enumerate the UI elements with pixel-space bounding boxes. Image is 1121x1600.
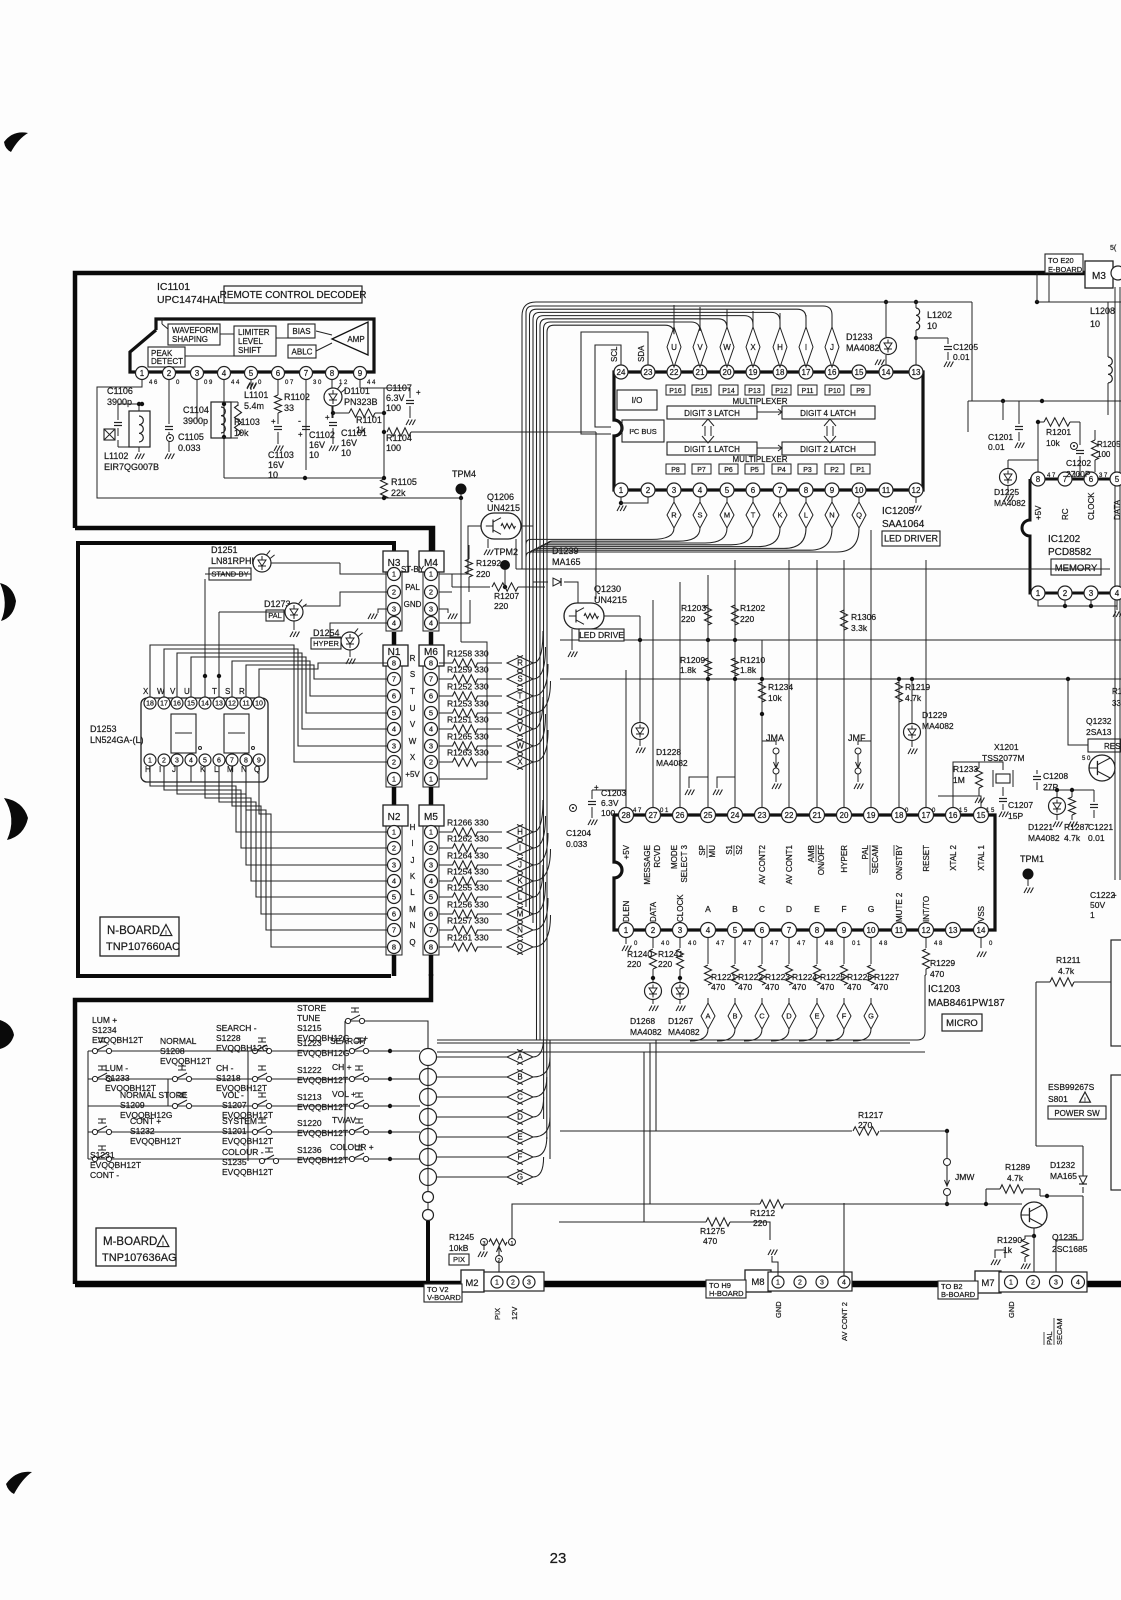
svg-text:R1251 330: R1251 330 (447, 715, 489, 725)
svg-text:+: + (363, 1033, 368, 1043)
svg-text:E: E (814, 1012, 819, 1021)
svg-text:SECAM: SECAM (871, 845, 880, 874)
svg-text:S1223: S1223 (297, 1038, 322, 1048)
svg-text:14: 14 (882, 368, 891, 377)
svg-text:R1209: R1209 (680, 655, 705, 665)
svg-text:3: 3 (429, 605, 433, 614)
svg-text:C1201: C1201 (988, 432, 1013, 442)
svg-text:RC: RC (1061, 508, 1070, 520)
svg-text:R1211: R1211 (1056, 955, 1081, 965)
svg-text:4: 4 (189, 758, 193, 765)
svg-text:4: 4 (392, 877, 396, 886)
svg-text:DETECT: DETECT (151, 357, 183, 366)
svg-text:470: 470 (930, 969, 944, 979)
svg-text:R1233: R1233 (953, 764, 978, 774)
svg-text:6: 6 (751, 486, 756, 495)
svg-text:POWER SW: POWER SW (1054, 1109, 1100, 1118)
svg-text:2: 2 (392, 588, 396, 597)
svg-text:P5: P5 (750, 467, 759, 474)
svg-text:LED DRIVER: LED DRIVER (884, 534, 939, 544)
svg-text:1.8k: 1.8k (740, 665, 757, 675)
svg-text:8: 8 (392, 659, 396, 668)
svg-text:!: ! (162, 1242, 164, 1249)
svg-text:6: 6 (429, 910, 433, 919)
svg-text:4 8: 4 8 (934, 941, 943, 947)
svg-text:6: 6 (760, 926, 765, 935)
svg-text:4 7: 4 7 (633, 808, 642, 814)
svg-text:N: N (410, 921, 416, 930)
svg-text:XTAL 2: XTAL 2 (949, 844, 958, 870)
svg-text:P12: P12 (775, 388, 788, 395)
svg-text:4: 4 (222, 369, 227, 378)
svg-text:A: A (705, 904, 711, 914)
svg-text:25: 25 (704, 811, 713, 820)
svg-text:S1215: S1215 (297, 1023, 322, 1033)
svg-text:17: 17 (160, 701, 168, 708)
svg-text:12: 12 (922, 926, 931, 935)
svg-text:JMW: JMW (955, 1172, 974, 1182)
svg-text:X: X (143, 687, 149, 696)
svg-text:B: B (732, 904, 738, 914)
svg-text:4.7k: 4.7k (905, 693, 922, 703)
svg-text:K: K (777, 511, 782, 520)
svg-text:R1255 330: R1255 330 (447, 883, 489, 893)
svg-text:MA4082: MA4082 (1028, 833, 1060, 843)
svg-text:8: 8 (392, 943, 396, 952)
svg-text:0 1: 0 1 (852, 941, 861, 947)
svg-text:P3: P3 (803, 467, 812, 474)
svg-text:4 6: 4 6 (149, 380, 158, 386)
svg-text:6: 6 (276, 369, 281, 378)
svg-text:R: R (410, 654, 416, 663)
svg-text:S2: S2 (735, 844, 744, 854)
svg-text:R1104: R1104 (386, 433, 412, 443)
svg-text:X: X (410, 753, 416, 762)
svg-text:M7: M7 (981, 1278, 994, 1289)
svg-text:PAL: PAL (861, 844, 870, 859)
svg-text:5: 5 (203, 758, 207, 765)
svg-text:CH +: CH + (332, 1062, 352, 1072)
svg-text:M: M (724, 511, 730, 520)
svg-text:M: M (517, 910, 524, 919)
svg-text:1: 1 (392, 775, 396, 784)
svg-text:L1101: L1101 (244, 390, 268, 400)
svg-text:LIMITER: LIMITER (238, 328, 270, 337)
svg-text:18: 18 (146, 701, 154, 708)
svg-text:R1101: R1101 (356, 415, 382, 425)
svg-text:4: 4 (392, 725, 396, 734)
svg-text:T: T (518, 692, 523, 701)
svg-text:3: 3 (392, 861, 396, 870)
svg-text:33: 33 (1112, 699, 1121, 708)
svg-text:EVQQBH12T: EVQQBH12T (297, 1102, 348, 1112)
svg-text:MU: MU (708, 845, 717, 858)
svg-text:10k: 10k (234, 428, 249, 438)
svg-text:4: 4 (706, 926, 711, 935)
svg-text:4: 4 (842, 1280, 846, 1287)
svg-text:TNP107660AC: TNP107660AC (106, 941, 180, 953)
svg-text:7: 7 (304, 369, 309, 378)
svg-text:R1217: R1217 (858, 1110, 883, 1120)
svg-text:R1263 330: R1263 330 (447, 748, 489, 758)
svg-text:3: 3 (672, 486, 677, 495)
svg-text:3: 3 (1054, 1280, 1058, 1287)
svg-text:L1102: L1102 (104, 451, 128, 461)
svg-text:11: 11 (242, 701, 249, 708)
svg-text:4.7k: 4.7k (1058, 966, 1075, 976)
svg-text:1: 1 (429, 828, 433, 837)
svg-text:100: 100 (386, 443, 401, 453)
svg-text:27: 27 (649, 811, 658, 820)
svg-text:100: 100 (386, 403, 401, 413)
svg-text:S1213: S1213 (297, 1092, 322, 1102)
svg-text:2SC1685: 2SC1685 (1052, 1244, 1088, 1254)
svg-text:C1104: C1104 (183, 405, 209, 415)
svg-text:5(: 5( (1110, 245, 1117, 252)
svg-text:L: L (518, 893, 523, 902)
svg-text:C: C (759, 904, 765, 914)
svg-text:H: H (410, 823, 416, 832)
svg-text:MA4082: MA4082 (656, 758, 688, 768)
svg-text:1: 1 (1090, 910, 1095, 920)
svg-text:1.8k: 1.8k (680, 665, 697, 675)
svg-text:W: W (409, 737, 417, 746)
svg-text:14: 14 (201, 701, 209, 708)
svg-text:D1101: D1101 (344, 386, 370, 396)
svg-text:J: J (411, 856, 415, 865)
svg-text:LUM -: LUM - (105, 1063, 128, 1073)
svg-text:8: 8 (1036, 475, 1041, 484)
svg-text:V: V (170, 687, 176, 696)
svg-text:8: 8 (815, 926, 820, 935)
svg-text:AMP: AMP (347, 335, 364, 344)
svg-text:U: U (671, 343, 677, 352)
svg-text:TV/AV: TV/AV (332, 1115, 356, 1125)
svg-text:S: S (225, 687, 230, 696)
svg-text:4 7: 4 7 (1047, 473, 1056, 479)
svg-text:ABLC: ABLC (292, 347, 313, 356)
svg-text:Q1206: Q1206 (487, 492, 514, 502)
svg-text:Q: Q (409, 938, 415, 947)
svg-text:C1106: C1106 (107, 386, 133, 396)
svg-text:1M: 1M (953, 775, 965, 785)
svg-text:CLOCK: CLOCK (676, 894, 685, 922)
svg-text:5: 5 (725, 486, 730, 495)
svg-text:16V: 16V (341, 438, 357, 448)
svg-text:C1103: C1103 (268, 450, 294, 460)
svg-text:18: 18 (776, 368, 785, 377)
svg-text:TPM1: TPM1 (1020, 854, 1044, 864)
svg-text:I: I (159, 765, 161, 774)
svg-text:D1233: D1233 (846, 332, 873, 342)
svg-text:20: 20 (723, 368, 732, 377)
svg-text:2: 2 (167, 369, 172, 378)
svg-text:2SA13: 2SA13 (1086, 727, 1112, 737)
svg-text:220: 220 (658, 959, 672, 969)
svg-text:P14: P14 (722, 388, 735, 395)
svg-text:M2: M2 (465, 1278, 478, 1289)
svg-text:D1268: D1268 (630, 1016, 655, 1026)
svg-text:I/O: I/O (632, 396, 643, 405)
svg-text:+: + (298, 430, 303, 439)
svg-text:470: 470 (847, 982, 861, 992)
svg-text:S1208: S1208 (160, 1046, 185, 1056)
svg-text:15: 15 (187, 701, 195, 708)
svg-text:3: 3 (678, 926, 683, 935)
svg-text:RESET: RESET (922, 845, 931, 872)
svg-text:12: 12 (912, 486, 921, 495)
svg-text:19: 19 (867, 811, 876, 820)
svg-text:R1234: R1234 (768, 682, 793, 692)
svg-text:0 1: 0 1 (660, 808, 669, 814)
svg-text:L1208: L1208 (1090, 306, 1115, 316)
svg-text:E: E (517, 1133, 522, 1142)
svg-text:5: 5 (392, 893, 396, 902)
svg-text:SEARCH: SEARCH (330, 1036, 365, 1046)
svg-text:!: ! (1084, 1098, 1086, 1105)
svg-text:WAVEFORM: WAVEFORM (172, 326, 219, 335)
svg-text:PIX: PIX (493, 1308, 502, 1320)
svg-text:7: 7 (392, 675, 396, 684)
svg-text:DIGIT 2 LATCH: DIGIT 2 LATCH (800, 445, 856, 454)
svg-text:MESSAGE: MESSAGE (643, 845, 652, 885)
svg-text:0 9: 0 9 (204, 380, 213, 386)
svg-text:3: 3 (195, 369, 200, 378)
svg-text:COLOUR +: COLOUR + (330, 1142, 374, 1152)
svg-text:22: 22 (785, 811, 794, 820)
svg-text:D1253: D1253 (90, 724, 117, 734)
svg-text:L: L (214, 765, 219, 774)
svg-text:S1232: S1232 (130, 1126, 155, 1136)
svg-text:100: 100 (1097, 450, 1111, 459)
svg-text:P9: P9 (856, 388, 865, 395)
svg-text:U: U (184, 687, 190, 696)
svg-text:10: 10 (1090, 319, 1100, 329)
svg-text:16: 16 (828, 368, 837, 377)
svg-text:0.01: 0.01 (953, 352, 970, 362)
svg-text:2: 2 (511, 1280, 515, 1287)
svg-text:R1205: R1205 (1097, 440, 1121, 449)
svg-text:R1212: R1212 (750, 1208, 775, 1218)
svg-text:21: 21 (696, 368, 705, 377)
svg-text:S1235: S1235 (222, 1157, 247, 1167)
svg-text:T: T (212, 687, 217, 696)
svg-text:ON/STBY: ON/STBY (895, 844, 904, 880)
svg-text:S1236: S1236 (297, 1145, 322, 1155)
svg-text:R1257 330: R1257 330 (447, 916, 489, 926)
svg-text:C1202: C1202 (1066, 458, 1091, 468)
svg-text:ESB99267S: ESB99267S (1048, 1082, 1095, 1092)
svg-text:D: D (786, 1012, 792, 1021)
svg-text:470: 470 (703, 1236, 717, 1246)
svg-text:8: 8 (429, 943, 433, 952)
svg-text:LUM +: LUM + (92, 1015, 117, 1025)
svg-text:D1251: D1251 (211, 545, 238, 555)
svg-text:I: I (411, 839, 413, 848)
svg-text:5: 5 (429, 893, 433, 902)
svg-text:3 0: 3 0 (313, 380, 322, 386)
svg-text:B: B (517, 1073, 522, 1082)
svg-text:5: 5 (429, 709, 433, 718)
svg-text:EIR7QG007B: EIR7QG007B (104, 462, 159, 472)
svg-text:10k: 10k (1046, 438, 1060, 448)
svg-text:4: 4 (1115, 589, 1120, 598)
svg-text:S: S (410, 670, 415, 679)
svg-text:R1105: R1105 (391, 477, 417, 487)
svg-text:MA4082: MA4082 (994, 498, 1026, 508)
svg-text:3 7: 3 7 (1099, 473, 1108, 479)
svg-text:R1241: R1241 (658, 949, 683, 959)
svg-text:4: 4 (392, 619, 396, 628)
svg-text:18: 18 (895, 811, 904, 820)
svg-text:4: 4 (1076, 1280, 1080, 1287)
svg-text:I²C BUS: I²C BUS (629, 427, 657, 436)
svg-text:W: W (516, 742, 524, 751)
svg-text:CLOCK: CLOCK (1087, 492, 1096, 520)
svg-text:1: 1 (392, 828, 396, 837)
svg-text:3: 3 (429, 861, 433, 870)
svg-text:V-BOARD: V-BOARD (427, 1293, 461, 1302)
svg-text:MODE: MODE (670, 845, 679, 869)
svg-text:H-BOARD: H-BOARD (709, 1289, 744, 1298)
svg-text:MA4082: MA4082 (846, 343, 880, 353)
svg-text:28: 28 (622, 811, 631, 820)
svg-text:RCVD: RCVD (653, 845, 662, 868)
svg-text:EVQQBH12T: EVQQBH12T (297, 1155, 348, 1165)
svg-text:10kB: 10kB (449, 1243, 469, 1253)
svg-text:2: 2 (429, 844, 433, 853)
svg-text:MAB8461PW187: MAB8461PW187 (928, 998, 1005, 1009)
svg-text:G: G (868, 904, 875, 914)
svg-text:Q: Q (856, 511, 862, 520)
svg-text:R1253 330: R1253 330 (447, 699, 489, 709)
svg-text:SECAM: SECAM (1055, 1318, 1064, 1345)
svg-text:L1202: L1202 (927, 310, 952, 320)
svg-text:24: 24 (617, 368, 626, 377)
svg-text:10: 10 (268, 470, 278, 480)
svg-text:10k: 10k (768, 693, 782, 703)
svg-text:S: S (517, 675, 522, 684)
svg-text:VOL -: VOL - (222, 1090, 244, 1100)
svg-text:MA4082: MA4082 (630, 1027, 662, 1037)
svg-text:DIGIT 3 LATCH: DIGIT 3 LATCH (684, 409, 740, 418)
svg-text:4 7: 4 7 (743, 941, 752, 947)
svg-text:10: 10 (855, 486, 864, 495)
svg-text:23: 23 (644, 368, 653, 377)
svg-text:MA165: MA165 (552, 557, 581, 567)
svg-text:Q1230: Q1230 (594, 584, 621, 594)
svg-text:4 7: 4 7 (797, 941, 806, 947)
svg-text:D1267: D1267 (668, 1016, 693, 1026)
svg-text:9: 9 (842, 926, 847, 935)
svg-text:MA4082: MA4082 (922, 721, 954, 731)
svg-text:15: 15 (855, 368, 864, 377)
svg-text:23: 23 (758, 811, 767, 820)
svg-text:R1202: R1202 (740, 603, 765, 613)
svg-text:0.01: 0.01 (988, 442, 1005, 452)
svg-text:PAL: PAL (1045, 1331, 1054, 1345)
svg-text:R1254 330: R1254 330 (447, 867, 489, 877)
svg-text:10: 10 (309, 450, 319, 460)
svg-text:SEARCH -: SEARCH - (216, 1023, 257, 1033)
svg-text:U: U (517, 709, 523, 718)
svg-text:P11: P11 (802, 388, 814, 395)
svg-text:R1275: R1275 (700, 1226, 725, 1236)
svg-text:10: 10 (255, 701, 263, 708)
svg-text:PAL: PAL (405, 583, 420, 592)
svg-text:S1234: S1234 (92, 1025, 117, 1035)
svg-text:4 8: 4 8 (879, 941, 888, 947)
svg-text:C1204: C1204 (566, 828, 591, 838)
svg-text:15: 15 (977, 811, 986, 820)
svg-text:3: 3 (527, 1280, 531, 1287)
svg-text:-: - (298, 416, 301, 426)
svg-text:SAA1064: SAA1064 (882, 519, 925, 530)
svg-text:D1221: D1221 (1028, 822, 1053, 832)
svg-text:3.3k: 3.3k (851, 623, 868, 633)
svg-text:2: 2 (392, 758, 396, 767)
svg-text:AV CONT2: AV CONT2 (758, 844, 767, 884)
svg-text:UPC1474HAL: UPC1474HAL (157, 294, 223, 306)
svg-text:TO E20: TO E20 (1048, 256, 1074, 265)
svg-text:220: 220 (753, 1218, 767, 1228)
svg-text:R1259 330: R1259 330 (447, 665, 489, 675)
svg-text:TPM2: TPM2 (494, 547, 518, 557)
svg-text:8: 8 (330, 369, 335, 378)
svg-text:R1201: R1201 (1046, 427, 1071, 437)
svg-text:EVQQBH12T: EVQQBH12T (90, 1160, 141, 1170)
svg-text:R1203: R1203 (681, 603, 706, 613)
svg-text:+: + (325, 413, 330, 422)
svg-text:+5V: +5V (405, 770, 420, 779)
svg-text:R1229: R1229 (930, 958, 955, 968)
svg-text:M: M (227, 765, 234, 774)
svg-text:3: 3 (175, 758, 179, 765)
svg-text:XTAL 1: XTAL 1 (977, 844, 986, 870)
svg-text:S1233: S1233 (105, 1073, 130, 1083)
svg-text:1: 1 (140, 369, 145, 378)
svg-text:C1205: C1205 (953, 342, 978, 352)
svg-text:3: 3 (1089, 589, 1094, 598)
svg-text:R1264 330: R1264 330 (447, 851, 489, 861)
svg-text:16V: 16V (268, 460, 284, 470)
svg-text:1: 1 (429, 775, 433, 784)
svg-text:C: C (759, 1012, 765, 1021)
svg-text:+5V: +5V (622, 844, 631, 859)
svg-text:C1208: C1208 (1043, 771, 1068, 781)
svg-text:STORE: STORE (297, 1003, 326, 1013)
svg-text:C: C (517, 1093, 523, 1102)
svg-text:R: R (517, 659, 523, 668)
svg-text:3: 3 (820, 1280, 824, 1287)
svg-text:220: 220 (627, 959, 641, 969)
svg-text:P6: P6 (724, 467, 733, 474)
svg-text:E: E (814, 904, 820, 914)
svg-text:DLEN: DLEN (622, 900, 631, 922)
svg-text:8: 8 (804, 486, 809, 495)
svg-text:X: X (750, 343, 756, 352)
svg-text:R: R (239, 687, 245, 696)
svg-text:B-BOARD: B-BOARD (941, 1290, 976, 1299)
svg-text:K: K (410, 872, 416, 881)
svg-text:470: 470 (874, 982, 888, 992)
svg-text:P4: P4 (777, 467, 786, 474)
svg-text:T: T (410, 687, 415, 696)
svg-text:N-BOARD: N-BOARD (107, 925, 160, 937)
svg-text:N2: N2 (388, 812, 401, 823)
svg-text:S1207: S1207 (222, 1100, 247, 1110)
svg-text:+: + (416, 388, 421, 397)
